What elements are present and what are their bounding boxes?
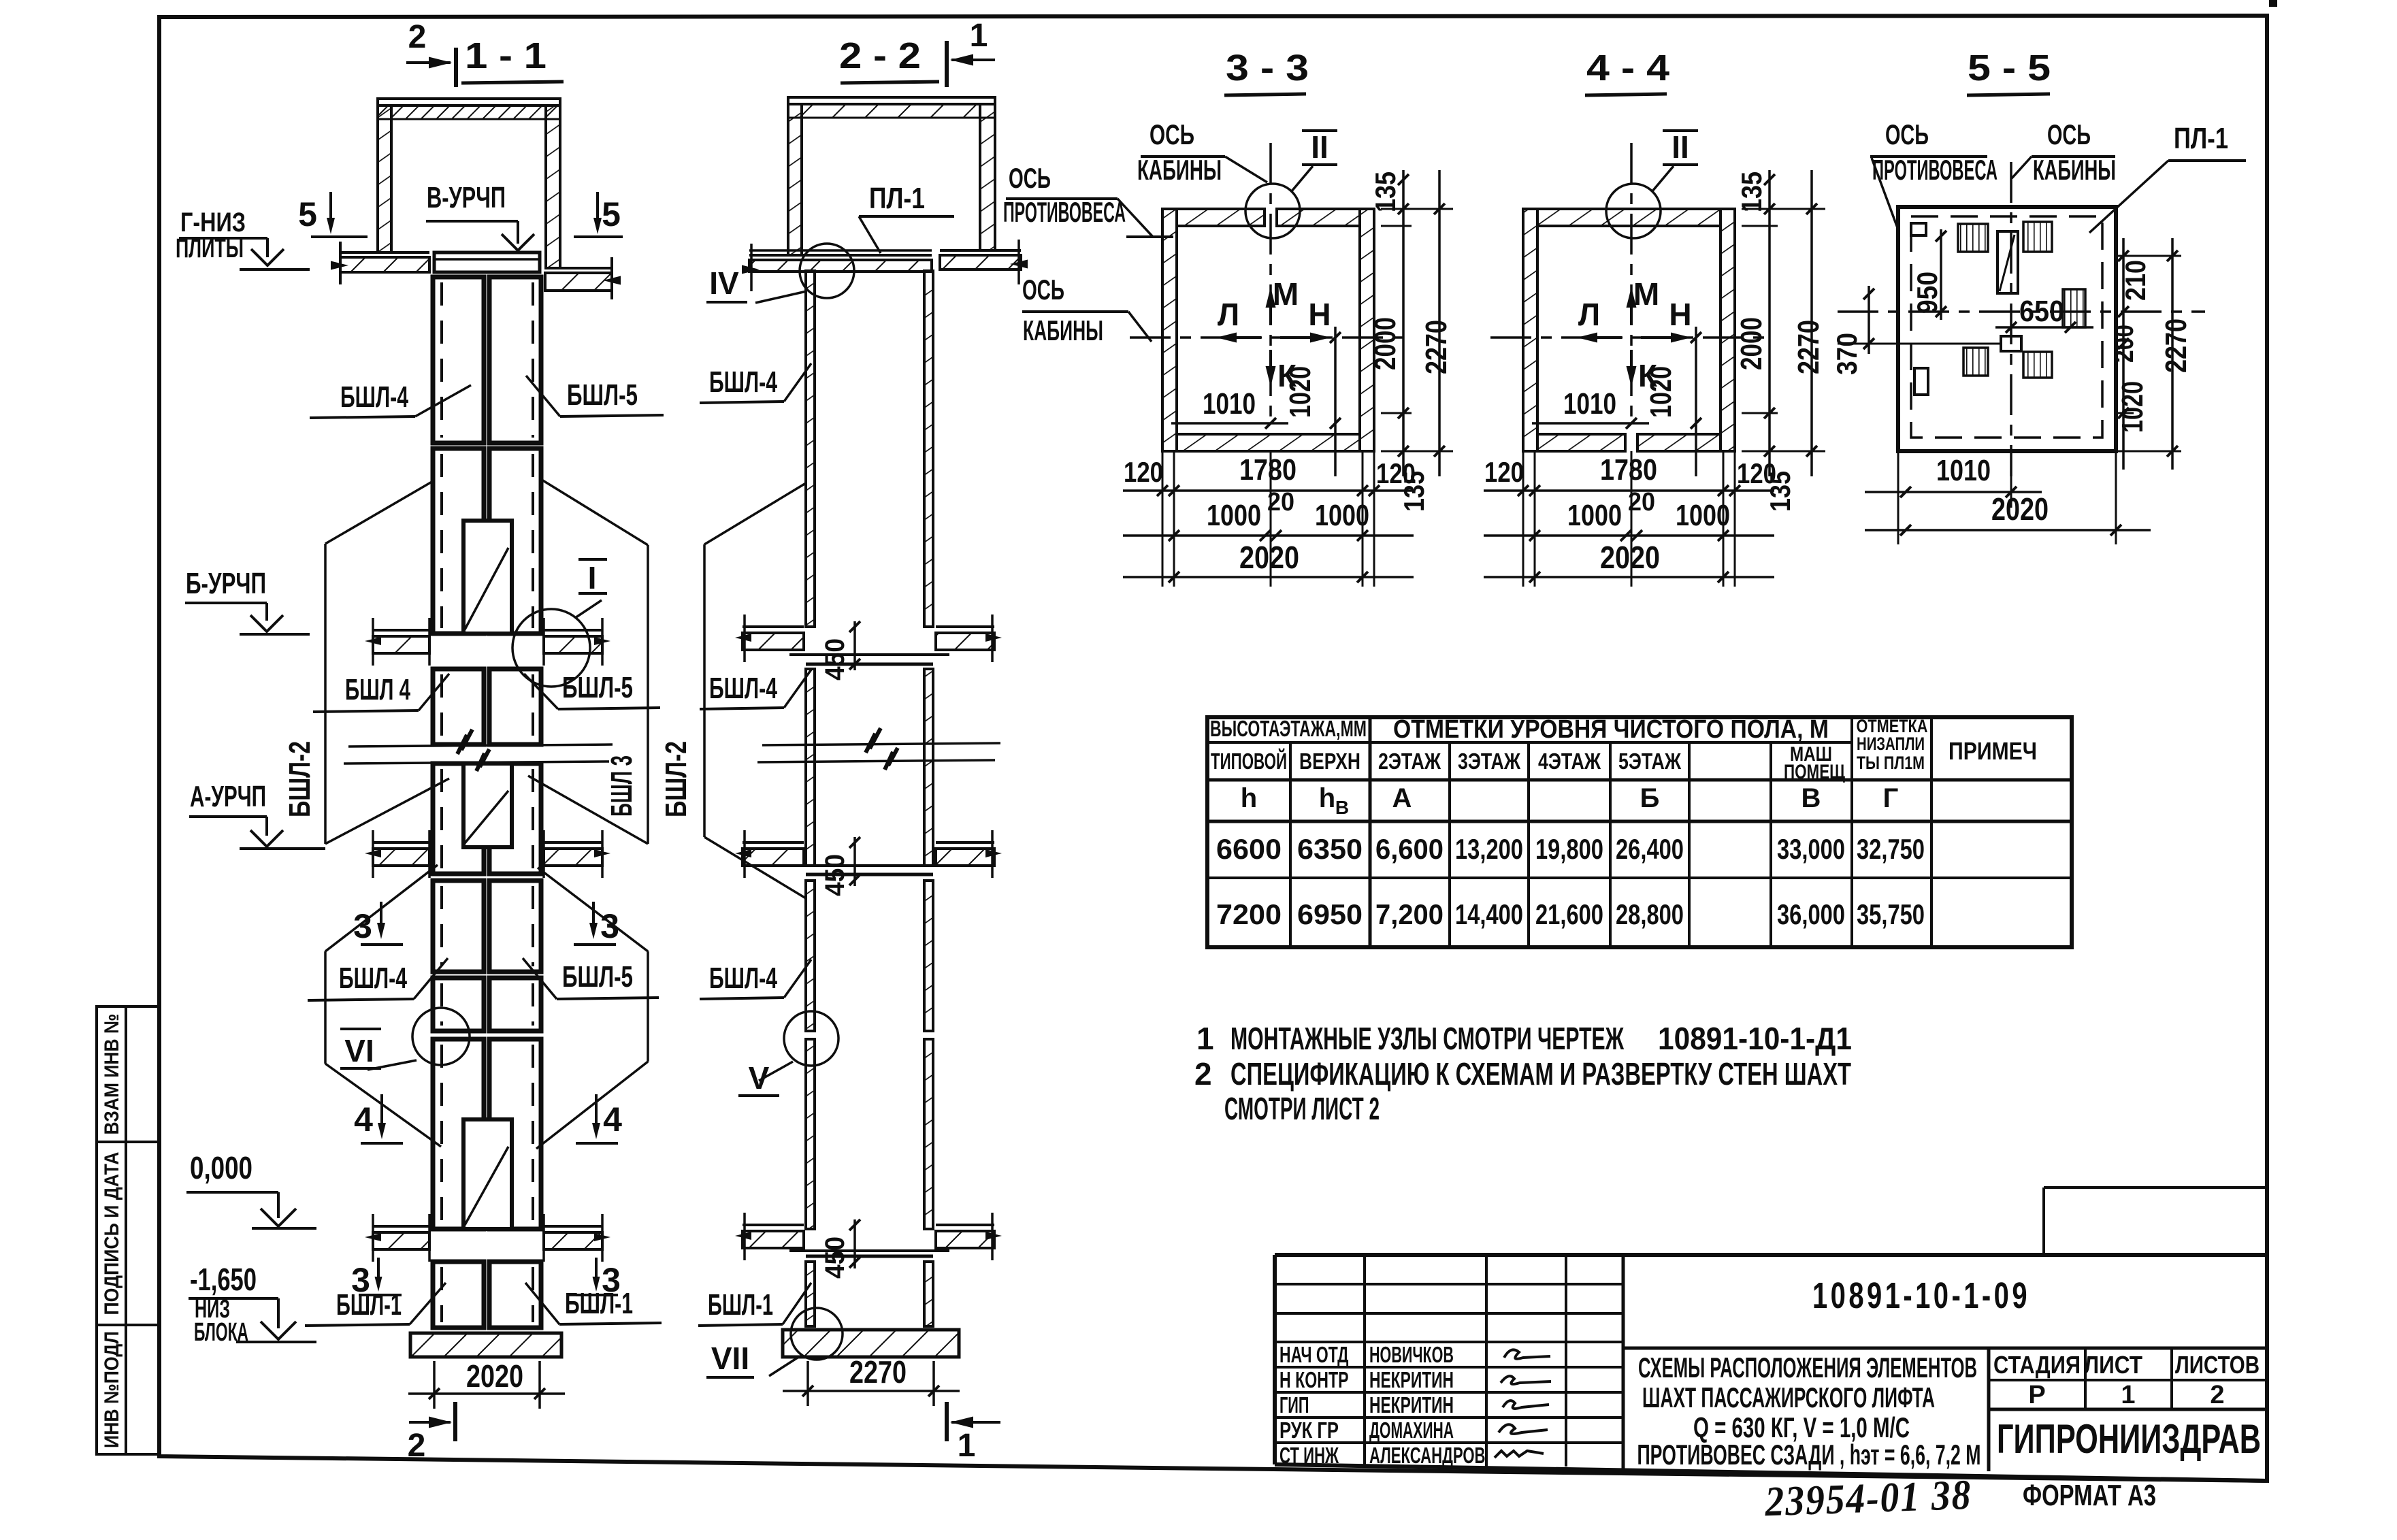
svg-text:1780: 1780 — [1600, 453, 1657, 487]
svg-text:I: I — [588, 560, 597, 595]
svg-text:4 - 4: 4 - 4 — [1586, 48, 1669, 88]
svg-text:2: 2 — [408, 19, 427, 55]
svg-text:ОСЬ: ОСЬ — [1149, 118, 1194, 150]
svg-text:19,800: 19,800 — [1535, 833, 1603, 865]
foundation slab 2-2 — [783, 1330, 959, 1357]
svg-text:650: 650 — [2019, 295, 2064, 328]
svg-text:2020: 2020 — [1600, 540, 1660, 575]
svg-text:2020: 2020 — [1239, 540, 1299, 575]
svg-text:СПЕЦИФИКАЦИЮ К СХЕМАМ И РА: СПЕЦИФИКАЦИЮ К СХЕМАМ И РАЗВЕРТКУ СТЕН Ш… — [1230, 1056, 1851, 1092]
plan 3 - 3 bottom dimension lines — [1162, 451, 1164, 587]
svg-text:1010: 1010 — [1203, 387, 1256, 421]
staff table — [1275, 1283, 1623, 1285]
svg-text:h: h — [1241, 783, 1257, 813]
plan 3 - 3 right dims — [1381, 208, 1453, 210]
svg-text:Л: Л — [1578, 297, 1600, 332]
5-5 right dims 210/200/1020/2270 — [2122, 238, 2125, 470]
svg-text:БШЛ-5: БШЛ-5 — [567, 378, 638, 412]
svg-text:АЛЕКСАНДРОВ: АЛЕКСАНДРОВ — [1369, 1443, 1486, 1468]
svg-text:БШЛ-4: БШЛ-4 — [340, 380, 408, 414]
svg-text:200: 200 — [2109, 325, 2139, 363]
svg-text:ТИПОВОЙ: ТИПОВОЙ — [1211, 748, 1287, 774]
shaft 1-1: dashed inner lines — [440, 282, 443, 438]
svg-text:ПРОТИВОВЕС СЗАДИ , hэт = 6,6,: ПРОТИВОВЕС СЗАДИ , hэт = 6,6, 7,2 М — [1637, 1439, 1981, 1471]
svg-text:3: 3 — [351, 1261, 370, 1299]
svg-text:1000: 1000 — [1207, 499, 1261, 532]
svg-text:ПРОТИВОВЕСА: ПРОТИВОВЕСА — [1003, 196, 1126, 228]
svg-text:2: 2 — [408, 1428, 426, 1464]
svg-text:БШЛ-4: БШЛ-4 — [339, 962, 407, 995]
svg-text:М: М — [1273, 276, 1299, 312]
svg-text:6,600: 6,600 — [1375, 833, 1444, 865]
svg-text:ЛИСТОВ: ЛИСТОВ — [2175, 1351, 2260, 1379]
machine room 1-1: right wall — [546, 105, 560, 268]
svg-text:ВЗАМ ИНВ №: ВЗАМ ИНВ № — [101, 1014, 123, 1135]
svg-text:2000: 2000 — [1369, 317, 1402, 370]
svg-text:1010: 1010 — [1563, 387, 1616, 421]
svg-text:НИЗАПЛИ: НИЗАПЛИ — [1857, 734, 1925, 754]
svg-text:СМОТРИ ЛИСТ 2: СМОТРИ ЛИСТ 2 — [1224, 1091, 1380, 1126]
svg-text:1000: 1000 — [1315, 499, 1369, 532]
svg-text:450: 450 — [820, 1236, 850, 1279]
svg-text:IV: IV — [709, 265, 739, 301]
svg-text:1: 1 — [2121, 1381, 2135, 1409]
svg-text:135: 135 — [1369, 171, 1401, 212]
section cut marker 1 (bottom) — [945, 1402, 949, 1441]
svg-text:1: 1 — [958, 1428, 976, 1464]
svg-text:НАЧ ОТД: НАЧ ОТД — [1279, 1342, 1349, 1367]
svg-text:2ЭТАЖ: 2ЭТАЖ — [1378, 749, 1441, 774]
svg-text:13,200: 13,200 — [1455, 833, 1523, 865]
svg-text:33,000: 33,000 — [1777, 833, 1845, 865]
plan 5-5 pit outline — [1898, 207, 2116, 451]
svg-text:ВЕРХН: ВЕРХН — [1299, 749, 1360, 774]
svg-text:5ЭТАЖ: 5ЭТАЖ — [1618, 749, 1681, 774]
svg-text:СТАДИЯ: СТАДИЯ — [1993, 1351, 2081, 1379]
svg-text:В-УРЧП: В-УРЧП — [427, 181, 506, 214]
svg-text:1780: 1780 — [1239, 453, 1297, 487]
svg-text:120: 120 — [1124, 456, 1163, 488]
svg-text:ОСЬ: ОСЬ — [1022, 274, 1064, 306]
svg-text:10891-10-1-09: 10891-10-1-09 — [1812, 1275, 2030, 1316]
svg-text:450: 450 — [820, 638, 850, 681]
svg-text:ОСЬ: ОСЬ — [1885, 118, 1929, 150]
svg-text:СХЕМЫ РАСПОЛОЖЕНИЯ ЭЛЕМЕНТОВ: СХЕМЫ РАСПОЛОЖЕНИЯ ЭЛЕМЕНТОВ — [1638, 1351, 1977, 1383]
svg-text:А-УРЧП: А-УРЧП — [190, 780, 266, 813]
svg-text:ШАХТ ПАССАЖИРСКОГО ЛИФТА: ШАХТ ПАССАЖИРСКОГО ЛИФТА — [1642, 1381, 1935, 1413]
node circle VI — [412, 1008, 470, 1065]
svg-text:2: 2 — [1194, 1056, 1212, 1092]
svg-text:В: В — [1801, 783, 1821, 813]
svg-text:Б-УРЧП: Б-УРЧП — [186, 567, 266, 600]
svg-text:В: В — [1335, 797, 1349, 818]
СТАДИЯ ЛИСТ ЛИСТОВ — [1987, 1348, 1991, 1471]
5-5 buffer blocks — [1958, 224, 1988, 252]
svg-text:БШЛ-1: БШЛ-1 — [708, 1288, 773, 1322]
svg-text:-1,650: -1,650 — [190, 1262, 257, 1297]
plan 4 - 4 node II — [1606, 184, 1661, 238]
svg-text:7200: 7200 — [1216, 898, 1282, 930]
section cut marker 1 (top) — [945, 41, 949, 87]
signatures squiggles — [1504, 1349, 1550, 1358]
svg-text:ОСЬ: ОСЬ — [1009, 162, 1051, 194]
svg-text:Н: Н — [1669, 297, 1691, 332]
section cut marker 2 (top) — [454, 48, 458, 87]
node circle V — [784, 1011, 838, 1066]
svg-text:Б: Б — [1640, 783, 1660, 813]
5-5 dim 370 — [1868, 286, 1870, 354]
svg-text:ПОМЕЩ: ПОМЕЩ — [1784, 761, 1845, 783]
svg-text:21,600: 21,600 — [1535, 898, 1603, 930]
bottom edge of title block — [1275, 1464, 2267, 1481]
svg-text:4ЭТАЖ: 4ЭТАЖ — [1538, 749, 1601, 774]
5-5 bottom dims 1010 / 2020 — [1897, 451, 1899, 544]
svg-text:10891-10-1-Д1: 10891-10-1-Д1 — [1658, 1021, 1852, 1056]
450 dims 2-2 — [853, 621, 856, 670]
svg-text:ОТМЕТКИ УРОВНЯ ЧИСТОГО ПОЛА: ОТМЕТКИ УРОВНЯ ЧИСТОГО ПОЛА, М — [1393, 715, 1829, 744]
node IV circle + label — [800, 244, 854, 298]
machine room floor 2-2: left slab — [749, 249, 932, 252]
plan 4 - 4 centerlines — [1630, 143, 1633, 422]
machine room 1-1: top slab — [378, 99, 560, 105]
svg-text:ИНВ №ПОДЛ: ИНВ №ПОДЛ — [101, 1331, 123, 1448]
plan 4 - 4 right dims — [1742, 208, 1825, 210]
svg-text:ПРИМЕЧ: ПРИМЕЧ — [1948, 737, 2037, 765]
svg-text:Л: Л — [1218, 297, 1239, 332]
svg-text:БШЛ-5: БШЛ-5 — [562, 671, 633, 704]
svg-text:3 - 3: 3 - 3 — [1226, 48, 1309, 88]
svg-text:2020: 2020 — [466, 1358, 523, 1394]
svg-text:КАБИНЫ: КАБИНЫ — [1023, 314, 1103, 346]
plan 3 - 3 walls — [1162, 209, 1177, 451]
foundation slab 1-1 — [410, 1333, 561, 1357]
svg-text:1 - 1: 1 - 1 — [465, 35, 547, 76]
svg-text:ТЫ ПЛ1М: ТЫ ПЛ1М — [1857, 753, 1925, 773]
svg-text:КАБИНЫ: КАБИНЫ — [1137, 154, 1222, 186]
svg-text:20: 20 — [1628, 488, 1655, 517]
svg-text:14,400: 14,400 — [1455, 898, 1523, 930]
svg-text:2270: 2270 — [1420, 320, 1453, 374]
svg-text:36,000: 36,000 — [1777, 898, 1845, 930]
plan 3 - 3 centerlines — [1269, 143, 1272, 422]
svg-text:210: 210 — [2119, 260, 2151, 301]
svg-text:20: 20 — [1267, 488, 1294, 517]
svg-text:ВЫСОТАЭТАЖА,ММ: ВЫСОТАЭТАЖА,ММ — [1210, 716, 1367, 741]
plan 4 - 4 direction arrows — [1630, 294, 1633, 325]
svg-text:950: 950 — [1911, 272, 1943, 314]
svg-text:КАБИНЫ: КАБИНЫ — [2033, 154, 2116, 186]
svg-text:5: 5 — [298, 195, 317, 233]
svg-text:120: 120 — [1484, 456, 1524, 488]
svg-text:РУК ГР: РУК ГР — [1279, 1418, 1339, 1443]
svg-text:26,400: 26,400 — [1616, 833, 1684, 865]
machine room 2-2: left wall — [788, 104, 802, 255]
svg-text:ПОДПИСЬ И ДАТА: ПОДПИСЬ И ДАТА — [101, 1152, 123, 1315]
svg-text:2 - 2: 2 - 2 — [839, 35, 921, 76]
svg-text:5 - 5: 5 - 5 — [1968, 48, 2051, 88]
svg-text:2270: 2270 — [2159, 318, 2193, 373]
section cut marker 2 (bottom) — [453, 1402, 457, 1441]
svg-text:БШЛ-5: БШЛ-5 — [562, 960, 633, 994]
svg-text:370: 370 — [1831, 333, 1863, 375]
plan 4 - 4 bottom dimension lines — [1522, 451, 1524, 587]
plan 3 - 3 node II — [1245, 184, 1300, 238]
svg-text:Н: Н — [1308, 297, 1331, 332]
machine room floor 2-2: right slab — [940, 249, 1021, 252]
node circle VII — [791, 1308, 843, 1360]
machine room 1-1: left wall — [378, 105, 391, 252]
svg-text:ФОРМАТ А3: ФОРМАТ А3 — [2023, 1479, 2156, 1512]
svg-text:135: 135 — [1735, 171, 1767, 212]
svg-text:ГИПРОНИИЗДРАВ: ГИПРОНИИЗДРАВ — [1997, 1416, 2261, 1462]
svg-text:БШЛ-2: БШЛ-2 — [283, 741, 316, 817]
svg-text:НЕКРИТИН: НЕКРИТИН — [1369, 1367, 1454, 1392]
floor slabs section 1-1 — [373, 636, 429, 653]
svg-text:II: II — [1311, 129, 1328, 165]
svg-text:1010: 1010 — [1936, 454, 1991, 487]
machine room 2-2: right wall — [980, 104, 995, 250]
svg-text:М: М — [1633, 276, 1659, 312]
svg-text:2: 2 — [2210, 1381, 2224, 1409]
shaft 1-1: wall panel columns — [433, 277, 484, 443]
svg-text:БШЛ 3: БШЛ 3 — [605, 755, 638, 817]
development outline 2-2 left — [703, 544, 706, 837]
svg-text:1: 1 — [970, 18, 988, 54]
svg-text:БШЛ-4: БШЛ-4 — [709, 672, 777, 705]
break lines 2-2 — [762, 743, 1000, 745]
shaft 2-2 walls — [806, 271, 815, 627]
svg-text:2270: 2270 — [849, 1354, 907, 1390]
svg-text:Р: Р — [2028, 1381, 2045, 1409]
svg-text:6950: 6950 — [1297, 898, 1363, 930]
svg-text:ПЛ-1: ПЛ-1 — [2174, 122, 2228, 155]
machine room floor: right slab — [545, 267, 612, 269]
svg-text:28,800: 28,800 — [1616, 898, 1684, 930]
door leaf openings 1-1 — [463, 521, 512, 634]
svg-text:450: 450 — [820, 854, 850, 896]
svg-text:МОНТАЖНЫЕ УЗЛЫ СМОТРИ ЧЕРТЕЖ: МОНТАЖНЫЕ УЗЛЫ СМОТРИ ЧЕРТЕЖ — [1230, 1021, 1624, 1056]
svg-text:1000: 1000 — [1567, 499, 1622, 532]
machine room floor: left slab — [340, 251, 429, 254]
svg-text:1020: 1020 — [1284, 366, 1317, 418]
svg-text:32,750: 32,750 — [1857, 833, 1925, 865]
upper right doc cell — [2042, 1187, 2045, 1255]
svg-text:НОВИЧКОВ: НОВИЧКОВ — [1369, 1342, 1454, 1367]
plan 5-5 dashed inner — [1911, 216, 2102, 438]
svg-text:3: 3 — [602, 1261, 621, 1299]
break lines 1-1 — [348, 744, 613, 747]
svg-text:0,000: 0,000 — [190, 1150, 252, 1185]
svg-text:2020: 2020 — [1991, 491, 2049, 527]
machine room floor: middle slab ПЛ — [434, 252, 540, 272]
interior floor lines 2-2 — [789, 653, 949, 656]
svg-text:4: 4 — [603, 1100, 622, 1138]
svg-text:4: 4 — [354, 1100, 373, 1138]
svg-text:V: V — [749, 1060, 770, 1096]
doc number cell — [1622, 1255, 1625, 1469]
svg-text:VII: VII — [711, 1341, 749, 1376]
svg-text:7,200: 7,200 — [1375, 898, 1444, 930]
svg-text:1020: 1020 — [2116, 381, 2149, 433]
svg-text:ПРОТИВОВЕСА: ПРОТИВОВЕСА — [1872, 154, 1997, 186]
table: floor level marks — [1207, 717, 2072, 947]
svg-text:БШЛ-4: БШЛ-4 — [709, 962, 777, 995]
node circle I — [512, 609, 590, 687]
machine room 2-2: top slab — [788, 97, 995, 104]
svg-text:БШЛ-4: БШЛ-4 — [709, 365, 777, 399]
svg-text:ОСЬ: ОСЬ — [2047, 118, 2091, 150]
svg-text:h: h — [1319, 783, 1335, 813]
svg-text:2000: 2000 — [1735, 317, 1768, 370]
svg-text:ЛИСТ: ЛИСТ — [2084, 1351, 2142, 1379]
plan 3 - 3 direction arrows — [1269, 294, 1272, 325]
svg-text:НЕКРИТИН: НЕКРИТИН — [1369, 1392, 1454, 1418]
svg-text:ПЛ-1: ПЛ-1 — [869, 182, 925, 215]
svg-text:1020: 1020 — [1644, 366, 1678, 418]
svg-text:А: А — [1392, 783, 1412, 813]
svg-text:VI: VI — [344, 1033, 374, 1068]
5-5 dim 950 — [1940, 229, 1942, 320]
svg-text:Н КОНТР: Н КОНТР — [1279, 1367, 1349, 1392]
svg-text:6600: 6600 — [1216, 833, 1282, 865]
page corner speck — [2269, 0, 2277, 7]
svg-text:2270: 2270 — [1792, 320, 1825, 374]
svg-text:6350: 6350 — [1297, 833, 1363, 865]
svg-text:35,750: 35,750 — [1857, 898, 1925, 930]
svg-text:ГИП: ГИП — [1279, 1392, 1309, 1418]
title block outline — [1275, 1253, 2267, 1257]
development outline (lower) — [324, 951, 327, 1064]
plan 4 - 4 walls — [1523, 209, 1537, 451]
svg-text:БШЛ-1: БШЛ-1 — [565, 1287, 633, 1320]
svg-text:1000: 1000 — [1676, 499, 1730, 532]
svg-text:23954-01 38: 23954-01 38 — [1763, 1472, 1972, 1526]
svg-text:5: 5 — [602, 195, 621, 233]
plan 5-5 centerlines — [2010, 162, 2012, 476]
svg-text:БШЛ 4: БШЛ 4 — [345, 673, 410, 706]
floor slabs 2-2 outer — [743, 625, 804, 628]
svg-text:3: 3 — [353, 907, 372, 945]
svg-text:135: 135 — [1764, 471, 1796, 512]
svg-text:1: 1 — [1196, 1021, 1214, 1056]
svg-text:II: II — [1672, 129, 1689, 165]
svg-text:135: 135 — [1398, 471, 1430, 512]
svg-text:3ЭТАЖ: 3ЭТАЖ — [1458, 749, 1520, 774]
svg-text:ДОМАХИНА: ДОМАХИНА — [1369, 1418, 1454, 1443]
svg-text:БШЛ-2: БШЛ-2 — [659, 741, 693, 817]
left column strip — [97, 1006, 159, 1142]
development outline БШЛ-2 / БШЛ-3 (upper) — [324, 544, 327, 844]
svg-text:3: 3 — [600, 907, 619, 945]
svg-text:Г: Г — [1883, 783, 1899, 813]
